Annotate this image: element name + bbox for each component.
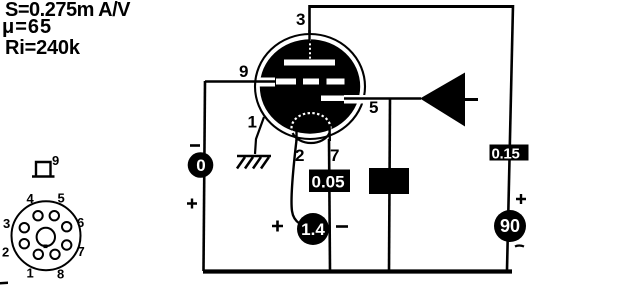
svg-text:5: 5	[58, 191, 65, 206]
wire: grid pin9 horizontal	[205, 80, 276, 83]
socket pin 1	[34, 250, 43, 259]
svg-text:9: 9	[239, 62, 248, 81]
grid dash 1	[276, 79, 296, 85]
ground symbol	[237, 156, 271, 169]
wire: pin2 lead crossing envelope ring	[295, 127, 297, 141]
anode plate bar	[284, 60, 335, 66]
wire: speaker stub	[465, 98, 478, 101]
svg-text:8: 8	[57, 267, 64, 282]
tube V1 envelope	[255, 34, 365, 139]
wire: pin5 to speaker tip	[348, 97, 421, 100]
svg-text:7: 7	[330, 146, 339, 165]
HT battery 90 V	[494, 210, 526, 242]
pin5 exit wire over notch	[344, 97, 368, 99]
pin5 exit notch	[344, 95, 368, 104]
grid dash 2	[303, 79, 319, 85]
pin9 entry notch	[258, 78, 275, 87]
svg-text:4: 4	[27, 191, 35, 206]
plus sign below bias battery	[187, 199, 197, 209]
wire: pin3 lead crossing envelope ring	[308, 30, 310, 41]
socket pin 4	[33, 211, 42, 220]
socket pin 8	[50, 250, 59, 259]
resistor value box 0.15	[490, 145, 529, 163]
cathode/filament circle (black part outside disk)	[293, 133, 330, 143]
plus sign left of filament battery	[272, 221, 283, 232]
socket pin 7	[62, 240, 71, 249]
svg-text:μ=65: μ=65	[2, 16, 52, 38]
plus sign above HT battery	[516, 194, 526, 204]
svg-text:0.05: 0.05	[312, 173, 345, 192]
minus mark below HT battery	[515, 246, 524, 247]
socket pin 2	[20, 239, 29, 248]
socket diagram: center spigot	[37, 228, 55, 246]
pin3 internal dashed lead	[309, 39, 311, 60]
socket pin 6	[62, 222, 71, 231]
socket pin 5	[50, 211, 59, 220]
wire: HT+ right vertical	[507, 5, 513, 270]
svg-text:7: 7	[78, 244, 85, 259]
minus sign right of filament battery	[336, 225, 348, 228]
svg-text:0: 0	[196, 156, 205, 175]
svg-text:5: 5	[369, 98, 378, 117]
screen/output electrode dash	[321, 96, 345, 102]
scan artifact bottom-left corner	[0, 282, 8, 285]
svg-text:90: 90	[500, 216, 520, 236]
wire: pin3 drop to tube top	[308, 5, 311, 33]
grid dash 3	[327, 79, 345, 85]
cathode/filament circle (white part inside disk)	[292, 113, 331, 133]
svg-text:3: 3	[296, 10, 305, 29]
grid bias battery 0 V	[188, 152, 214, 178]
svg-text:1: 1	[27, 266, 34, 281]
filament battery 1.4 V	[297, 213, 329, 245]
svg-text:0.15: 0.15	[492, 146, 520, 163]
socket diagram: top cap symbol	[32, 162, 55, 177]
choke/output load (black box)	[369, 168, 409, 194]
pin9 entry wire over notch	[258, 80, 276, 82]
svg-text:1.4: 1.4	[301, 220, 325, 239]
wire: bottom return rail	[203, 269, 512, 273]
svg-text:9: 9	[52, 153, 59, 168]
wire: pin7 filament vertical	[329, 139, 330, 271]
speaker/output transducer triangle	[420, 73, 465, 127]
wire: pin1 to ground	[255, 117, 264, 154]
svg-text:2: 2	[295, 146, 304, 165]
wire: choke branch vertical	[389, 99, 390, 271]
minus sign above bias battery	[190, 144, 200, 147]
svg-text:1: 1	[248, 113, 257, 132]
capacitor value box 0.05	[309, 170, 350, 193]
wire: anode top rail from pin3 to HT+	[309, 5, 513, 8]
wire: pin2 to filament battery	[292, 140, 300, 224]
wire: grid-bias left vertical	[204, 81, 206, 271]
socket diagram: base outline	[12, 201, 81, 270]
socket pin 3	[20, 223, 29, 232]
svg-text:3: 3	[3, 216, 10, 231]
svg-text:6: 6	[77, 215, 84, 230]
svg-text:Ri=240k: Ri=240k	[5, 37, 81, 59]
wire: pin7 lead crossing envelope ring	[328, 125, 331, 141]
svg-text:2: 2	[2, 245, 9, 260]
socket diagram: spigot key notch	[44, 245, 48, 249]
